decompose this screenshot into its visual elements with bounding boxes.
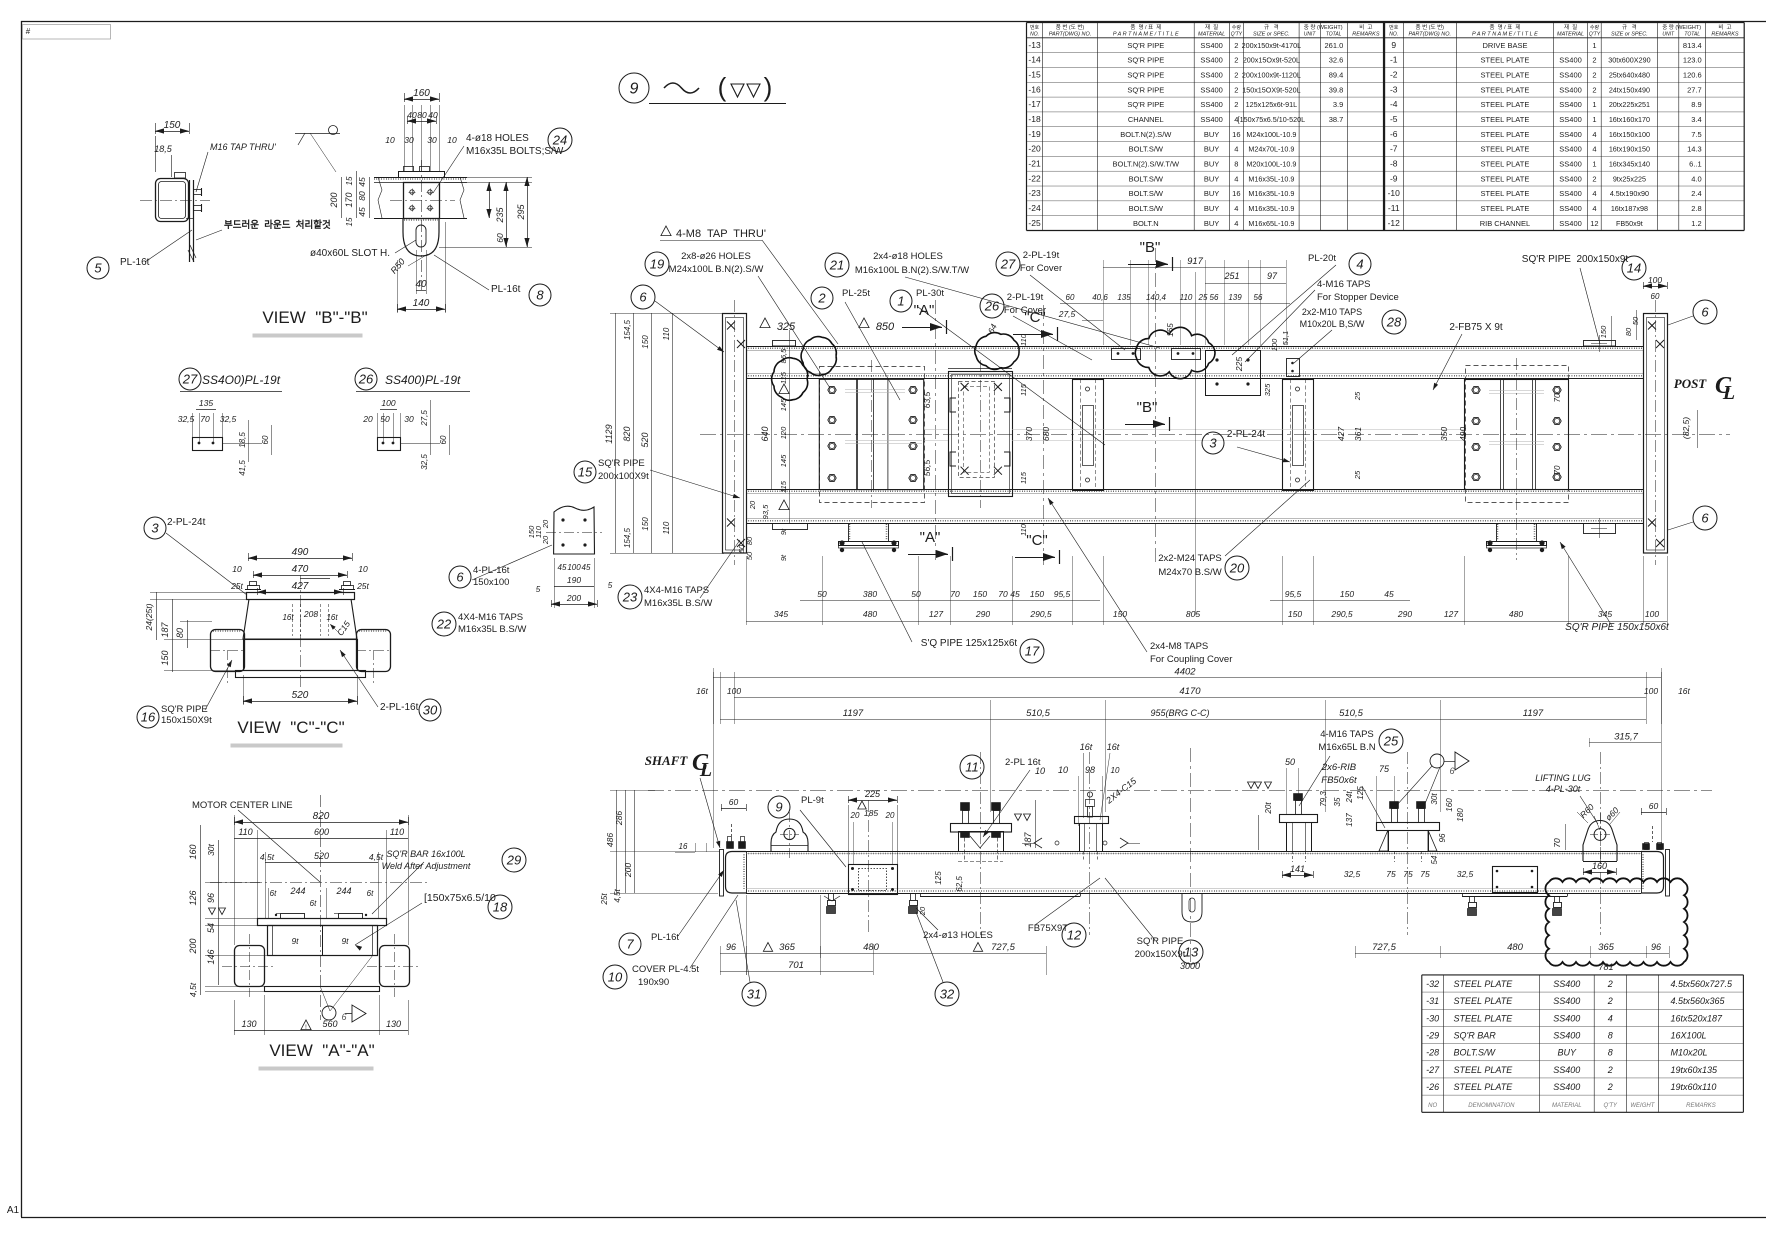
- vertical chain lines bottom assembly: [1190, 748, 1192, 962]
- svg-text:12: 12: [1590, 219, 1598, 228]
- svg-text:813.4: 813.4: [1683, 41, 1702, 50]
- svg-text:19tx60x110: 19tx60x110: [1671, 1082, 1717, 1092]
- svg-text:(: (: [718, 72, 727, 102]
- svg-text:16: 16: [1232, 189, 1240, 198]
- stopper plates under top rail: [1112, 349, 1141, 360]
- svg-text:SS400: SS400: [1559, 189, 1582, 198]
- svg-text:PART(DWG) NO.: PART(DWG) NO.: [1049, 32, 1092, 38]
- svg-text:110: 110: [1019, 523, 1028, 536]
- svg-text:60: 60: [1649, 801, 1659, 811]
- svg-text:261.0: 261.0: [1325, 41, 1344, 50]
- svg-text:16tx187x98: 16tx187x98: [1611, 204, 1648, 213]
- svg-text:24(25t): 24(25t): [144, 603, 154, 631]
- top assembly frame rails: [746, 346, 1643, 348]
- svg-text:M20x100L-10.9: M20x100L-10.9: [1246, 159, 1296, 168]
- svg-text:SS400: SS400: [1559, 145, 1582, 154]
- svg-text:45: 45: [357, 207, 367, 217]
- svg-text:50: 50: [817, 589, 827, 599]
- bottom assembly bottom labels: [619, 933, 641, 955]
- svg-text:재 질: 재 질: [1564, 23, 1577, 31]
- svg-text:244: 244: [335, 886, 351, 896]
- svg-text:17: 17: [1025, 643, 1040, 658]
- svg-text:24tx150x490: 24tx150x490: [1609, 85, 1650, 94]
- svg-text:10: 10: [385, 135, 395, 145]
- svg-text:6t: 6t: [367, 889, 374, 898]
- svg-text:150: 150: [973, 589, 987, 599]
- svg-text:(82,5): (82,5): [1681, 417, 1691, 439]
- svg-text:M24x70L-10.9: M24x70L-10.9: [1248, 145, 1294, 154]
- svg-text:510,5: 510,5: [1339, 708, 1363, 719]
- svg-text:TOTAL: TOTAL: [1684, 32, 1700, 38]
- section lines A B C: [935, 300, 937, 560]
- svg-text:REMARKS: REMARKS: [1352, 32, 1380, 38]
- svg-text:95,5: 95,5: [1285, 589, 1302, 599]
- svg-text:427: 427: [292, 581, 309, 592]
- svg-text:M10x20L: M10x20L: [1671, 1048, 1708, 1058]
- svg-text:M16x35L-10.9: M16x35L-10.9: [1248, 189, 1294, 198]
- svg-text:번호: 번호: [1030, 24, 1040, 31]
- svg-text:SS400: SS400: [1559, 56, 1582, 65]
- svg-text:127: 127: [1444, 609, 1458, 619]
- svg-text:208: 208: [303, 609, 318, 619]
- svg-text:955(BRG C-C): 955(BRG C-C): [1150, 708, 1209, 718]
- svg-text:70: 70: [1553, 465, 1562, 474]
- svg-text:139: 139: [1228, 293, 1242, 302]
- svg-text:20: 20: [885, 811, 895, 820]
- svg-text:125: 125: [934, 871, 943, 885]
- svg-text:UNIT: UNIT: [1662, 32, 1675, 38]
- svg-text:160: 160: [1592, 861, 1607, 871]
- svg-text:100: 100: [567, 563, 581, 572]
- svg-text:24t: 24t: [1345, 791, 1354, 804]
- svg-text:비 고: 비 고: [1359, 23, 1372, 31]
- svg-text:70: 70: [1553, 393, 1562, 402]
- svg-text:80: 80: [175, 628, 185, 638]
- lifting lug left PL-9t: [771, 819, 808, 852]
- svg-text:9tx25x225: 9tx25x225: [1613, 174, 1646, 183]
- svg-text:480: 480: [1509, 609, 1523, 619]
- svg-text:BOLT.S/W: BOLT.S/W: [1454, 1048, 1497, 1058]
- svg-text:-3: -3: [1390, 84, 1398, 94]
- svg-text:115: 115: [1019, 471, 1028, 484]
- svg-text:SQ'R BAR 16x100L: SQ'R BAR 16x100L: [386, 849, 465, 859]
- svg-text:9: 9: [775, 799, 782, 814]
- svg-text:15: 15: [345, 176, 354, 185]
- svg-text:WEIGHT: WEIGHT: [1630, 1103, 1655, 1109]
- center bearing housing: [949, 372, 1013, 497]
- svg-text:20: 20: [1229, 560, 1245, 575]
- svg-text:-25: -25: [1028, 218, 1041, 228]
- svg-text:SQ'R PIPE: SQ'R PIPE: [1137, 936, 1184, 947]
- svg-text:4: 4: [1592, 130, 1596, 139]
- svg-text:9t: 9t: [779, 528, 788, 535]
- svg-text:680: 680: [1041, 427, 1051, 441]
- svg-text:22: 22: [436, 616, 452, 631]
- svg-text:140,4: 140,4: [1146, 293, 1167, 302]
- svg-text:M24x100L B.N(2).S/W: M24x100L B.N(2).S/W: [669, 264, 764, 275]
- svg-text:251: 251: [1223, 271, 1239, 281]
- svg-text:PL-25t: PL-25t: [842, 288, 870, 299]
- svg-text:135: 135: [1117, 293, 1131, 302]
- svg-text:146: 146: [206, 949, 216, 964]
- svg-text:VIEW "A"-"A": VIEW "A"-"A": [269, 1041, 374, 1060]
- svg-text:-32: -32: [1426, 979, 1439, 989]
- svg-text:40: 40: [415, 279, 427, 290]
- svg-text:"C": "C": [1024, 309, 1045, 326]
- svg-text:18: 18: [493, 899, 508, 914]
- svg-text:480: 480: [1507, 942, 1524, 953]
- svg-text:25t: 25t: [356, 581, 369, 591]
- svg-text:45: 45: [582, 563, 591, 572]
- svg-text:-26: -26: [1426, 1082, 1439, 1092]
- svg-text:SQ'R PIPE: SQ'R PIPE: [1127, 71, 1164, 80]
- svg-text:2: 2: [1592, 71, 1596, 80]
- svg-text:16tx520x187: 16tx520x187: [1671, 1013, 1724, 1023]
- svg-text:150: 150: [1030, 589, 1044, 599]
- svg-text:PL-16t: PL-16t: [491, 284, 521, 295]
- svg-text:SS400: SS400: [1200, 85, 1223, 94]
- svg-text:16tx150x100: 16tx150x100: [1609, 130, 1650, 139]
- weld notes 325 850: [760, 318, 770, 328]
- svg-text:160: 160: [1445, 798, 1454, 812]
- svg-text:75: 75: [1379, 764, 1390, 774]
- svg-text:110: 110: [662, 521, 671, 534]
- svg-text:187: 187: [1023, 832, 1033, 848]
- svg-text:2x4-M8 TAPS: 2x4-M8 TAPS: [1150, 641, 1208, 652]
- svg-text:STEEL PLATE: STEEL PLATE: [1481, 174, 1530, 183]
- svg-text:18,5: 18,5: [238, 432, 247, 448]
- svg-text:380: 380: [863, 589, 877, 599]
- svg-text:10: 10: [447, 135, 457, 145]
- svg-text:BOLT.N(2).S/W.T/W: BOLT.N(2).S/W.T/W: [1113, 159, 1180, 168]
- svg-text:P A R T N A M E / T I T L E: P A R T N A M E / T I T L E: [1113, 32, 1179, 38]
- svg-text:M16x35L B.S/W: M16x35L B.S/W: [458, 624, 526, 635]
- svg-text:STEEL PLATE: STEEL PLATE: [1454, 996, 1514, 1006]
- svg-text:SS400: SS400: [1559, 130, 1582, 139]
- svg-text:SS400: SS400: [1559, 100, 1582, 109]
- svg-text:4-M16 TAPS: 4-M16 TAPS: [1320, 729, 1374, 740]
- svg-text:51,1: 51,1: [1281, 331, 1290, 346]
- svg-text:70: 70: [998, 589, 1008, 599]
- svg-text:2x4-ø18 HOLES: 2x4-ø18 HOLES: [873, 251, 943, 262]
- center line POST: [700, 434, 1730, 436]
- svg-text:141: 141: [1290, 864, 1305, 874]
- svg-text:10: 10: [1111, 766, 1120, 775]
- svg-text:9t: 9t: [341, 936, 349, 946]
- svg-text:2.8: 2.8: [1691, 204, 1701, 213]
- svg-text:BUY: BUY: [1204, 145, 1219, 154]
- svg-text:"B": "B": [1137, 399, 1158, 416]
- svg-text:10: 10: [1035, 766, 1045, 776]
- svg-text:PART(DWG) NO.: PART(DWG) NO.: [1408, 32, 1451, 38]
- svg-text:품 번 (도 번): 품 번 (도 번): [1416, 23, 1445, 31]
- svg-text:45: 45: [357, 177, 367, 187]
- svg-text:2: 2: [1234, 56, 1238, 65]
- svg-text:SHAFT: SHAFT: [645, 753, 689, 768]
- motor mount left bolt group: [820, 367, 925, 503]
- svg-text:M16 TAP THRU': M16 TAP THRU': [210, 142, 276, 152]
- left bolts on beam top: [728, 837, 732, 845]
- svg-text:29: 29: [506, 852, 521, 867]
- svg-text:-29: -29: [1426, 1030, 1439, 1040]
- svg-text:4-M16 TAPS: 4-M16 TAPS: [1317, 279, 1371, 290]
- svg-text:-24: -24: [1028, 203, 1041, 213]
- svg-text:70: 70: [1552, 838, 1562, 848]
- svg-text:PL-30t: PL-30t: [916, 288, 944, 299]
- svg-text:-11: -11: [1388, 203, 1400, 213]
- svg-text:32,5: 32,5: [1344, 869, 1361, 879]
- svg-text:2: 2: [1592, 56, 1596, 65]
- svg-text:96: 96: [1651, 942, 1661, 952]
- svg-text:200x100x9t-1120L: 200x100x9t-1120L: [1242, 71, 1301, 80]
- svg-text:32,5: 32,5: [178, 414, 195, 424]
- svg-text:325: 325: [777, 321, 796, 333]
- svg-text:STEEL PLATE: STEEL PLATE: [1481, 189, 1530, 198]
- balloon 15 SQR PIPE 200x100X9t: [574, 461, 596, 483]
- svg-text:4,5t: 4,5t: [188, 982, 198, 997]
- beam inner lines and hidden bolt dashes: [746, 853, 1641, 855]
- svg-text:16t: 16t: [1080, 742, 1093, 752]
- svg-text:96: 96: [1438, 833, 1447, 842]
- misc weld marks bottom assembly: [824, 896, 840, 901]
- svg-text:3.9: 3.9: [1333, 100, 1343, 109]
- svg-text:150: 150: [641, 517, 650, 531]
- svg-text:14: 14: [1627, 260, 1641, 275]
- svg-text:SQ'R PIPE: SQ'R PIPE: [1127, 41, 1164, 50]
- svg-text:SQ'R PIPE: SQ'R PIPE: [1127, 100, 1164, 109]
- svg-text:STEEL PLATE: STEEL PLATE: [1481, 145, 1530, 154]
- bottom assembly beam: [746, 851, 1641, 853]
- svg-text:40: 40: [428, 110, 438, 120]
- svg-text:79,3: 79,3: [1319, 791, 1328, 807]
- svg-text:41,5: 41,5: [238, 460, 247, 476]
- svg-text:PL-9t: PL-9t: [801, 795, 824, 806]
- svg-text:1129: 1129: [604, 424, 614, 443]
- svg-text:200x150X9t: 200x150X9t: [1135, 949, 1186, 960]
- svg-text:STEEL PLATE: STEEL PLATE: [1481, 85, 1530, 94]
- svg-text:190x90: 190x90: [638, 977, 669, 988]
- svg-text:120.6: 120.6: [1683, 71, 1702, 80]
- svg-text:M16x35L-10.9: M16x35L-10.9: [1248, 174, 1294, 183]
- svg-text:Q'TY: Q'TY: [1589, 32, 1601, 38]
- svg-text:1197: 1197: [843, 708, 864, 719]
- svg-text:24: 24: [552, 132, 567, 147]
- bearing pedestal right of center: [1075, 817, 1109, 824]
- svg-text:6: 6: [1701, 304, 1709, 319]
- bottom assembly bottom dims: [720, 953, 1046, 955]
- svg-text:25t: 25t: [600, 893, 609, 906]
- svg-text:-15: -15: [1028, 70, 1041, 80]
- svg-text:100: 100: [1644, 686, 1658, 696]
- svg-text:SS400: SS400: [1200, 115, 1223, 124]
- sheet border: [21, 21, 1766, 23]
- svg-text:16t: 16t: [282, 613, 294, 622]
- rib pedestal (2x6-RIB): [1377, 823, 1440, 831]
- svg-text:6: 6: [341, 1012, 346, 1022]
- svg-text:부드러운 라운드 처리할것: 부드러운 라운드 처리할것: [224, 219, 331, 231]
- svg-text:품 명 / 표 제: 품 명 / 표 제: [1130, 23, 1161, 31]
- svg-text:2: 2: [1607, 1065, 1613, 1075]
- svg-text:4: 4: [1592, 204, 1596, 213]
- right end bolts: [1652, 826, 1654, 842]
- svg-text:비 고: 비 고: [1718, 23, 1731, 31]
- svg-text:225: 225: [864, 789, 881, 799]
- svg-text:For Coupling Cover: For Coupling Cover: [1150, 654, 1232, 665]
- svg-text:NO.: NO.: [1389, 32, 1398, 38]
- svg-text:BUY: BUY: [1204, 219, 1219, 228]
- svg-text:3: 3: [151, 520, 159, 535]
- svg-text:RIB CHANNEL: RIB CHANNEL: [1480, 219, 1530, 228]
- svg-text:4-M8 TAP THRU': 4-M8 TAP THRU': [676, 228, 766, 240]
- svg-text:56: 56: [1210, 293, 1219, 302]
- svg-text:M16x35L BOLTS;S/W: M16x35L BOLTS;S/W: [466, 146, 564, 157]
- svg-text:2-PL-16t: 2-PL-16t: [380, 702, 419, 713]
- svg-text:MATERIAL: MATERIAL: [1198, 32, 1225, 38]
- svg-text:REMARKS: REMARKS: [1711, 32, 1739, 38]
- svg-text:1: 1: [1592, 159, 1596, 168]
- svg-text:-27: -27: [1426, 1065, 1440, 1075]
- svg-text:110: 110: [238, 827, 252, 837]
- svg-text:345: 345: [774, 609, 788, 619]
- svg-text:8.9: 8.9: [1691, 100, 1701, 109]
- svg-text:-21: -21: [1028, 158, 1041, 168]
- svg-text:20: 20: [850, 811, 860, 820]
- svg-text:5: 5: [536, 585, 541, 594]
- svg-text:727,5: 727,5: [991, 942, 1015, 953]
- svg-text:중 량 (WEIGHT): 중 량 (WEIGHT): [1304, 24, 1343, 31]
- svg-text:10: 10: [1058, 765, 1068, 775]
- svg-text:4X4-M16 TAPS: 4X4-M16 TAPS: [458, 612, 523, 623]
- svg-text:SS400: SS400: [1200, 71, 1223, 80]
- svg-text:SS400: SS400: [1559, 71, 1582, 80]
- pedestal 11 (2-PL 16t): [951, 824, 1012, 833]
- svg-text:-7: -7: [1390, 144, 1398, 154]
- revision cloud bottom right: [1545, 878, 1687, 965]
- svg-text:PL-16t: PL-16t: [120, 257, 150, 268]
- svg-text:[150x75x6.5/10: [150x75x6.5/10: [424, 892, 496, 904]
- svg-text:M24x100L-10.9: M24x100L-10.9: [1246, 130, 1296, 139]
- svg-text:1: 1: [897, 293, 904, 308]
- svg-text:-20: -20: [1028, 144, 1041, 154]
- svg-text:40: 40: [407, 110, 417, 120]
- svg-text:25: 25: [1353, 470, 1362, 480]
- svg-text:25: 25: [1198, 293, 1208, 302]
- svg-text:ø40x60L SLOT H.: ø40x60L SLOT H.: [310, 248, 390, 259]
- svg-text:SS400: SS400: [1553, 1082, 1580, 1092]
- supports under bottom rail: [848, 523, 850, 541]
- svg-text:21: 21: [829, 257, 844, 272]
- top dim block above stopper: [1103, 267, 1286, 269]
- svg-text:150: 150: [1113, 609, 1127, 619]
- svg-text:50: 50: [1285, 757, 1295, 767]
- svg-text:6: 6: [456, 569, 464, 584]
- svg-text:54: 54: [206, 923, 216, 933]
- svg-text:SS400: SS400: [1553, 1065, 1580, 1075]
- svg-text:BOLT.S/W: BOLT.S/W: [1129, 189, 1164, 198]
- svg-text:54: 54: [1430, 855, 1439, 864]
- svg-text:200x150x9t-4170L: 200x150x9t-4170L: [1242, 41, 1302, 50]
- svg-text:-28: -28: [1426, 1048, 1439, 1058]
- svg-text:110: 110: [390, 827, 404, 837]
- svg-text:30: 30: [423, 702, 438, 717]
- svg-text:145: 145: [779, 398, 788, 411]
- svg-text:123.0: 123.0: [1683, 56, 1702, 65]
- svg-text:재 질: 재 질: [1205, 23, 1218, 31]
- svg-text:20tx225x251: 20tx225x251: [1609, 100, 1650, 109]
- svg-text:SQ'R PIPE 200x150x9t: SQ'R PIPE 200x150x9t: [1522, 254, 1629, 265]
- svg-text:27.7: 27.7: [1687, 85, 1702, 94]
- svg-text:2: 2: [1592, 85, 1596, 94]
- svg-text:-17: -17: [1028, 99, 1041, 109]
- detail 4-PL-16t 150x100: [554, 506, 595, 554]
- svg-text:39.8: 39.8: [1329, 85, 1344, 94]
- svg-text:30: 30: [427, 135, 437, 145]
- svg-text:200x100X9t: 200x100X9t: [598, 471, 649, 482]
- svg-text:2: 2: [1234, 41, 1238, 50]
- svg-text:727,5: 727,5: [1372, 942, 1396, 953]
- svg-text:M16x65L B.N: M16x65L B.N: [1318, 742, 1375, 753]
- svg-text:SS400: SS400: [1559, 174, 1582, 183]
- svg-text:40,6: 40,6: [1092, 293, 1108, 302]
- svg-text:SS400: SS400: [1553, 996, 1580, 1006]
- svg-text:60: 60: [495, 233, 505, 243]
- svg-text:-2: -2: [1390, 70, 1398, 80]
- svg-text:50: 50: [911, 589, 921, 599]
- svg-text:-19: -19: [1028, 129, 1041, 139]
- svg-text:781: 781: [1598, 962, 1613, 972]
- svg-text:100: 100: [1270, 338, 1279, 351]
- svg-text:2: 2: [1607, 979, 1613, 989]
- svg-text:89.4: 89.4: [1329, 71, 1344, 80]
- svg-text:REMARKS: REMARKS: [1686, 1103, 1716, 1109]
- svg-text:20: 20: [362, 414, 373, 424]
- svg-text:S'Q PIPE 125x125x6t: S'Q PIPE 125x125x6t: [921, 638, 1018, 649]
- svg-text:#: #: [26, 27, 31, 36]
- svg-text:4: 4: [1234, 174, 1238, 183]
- svg-text:38.7: 38.7: [1329, 115, 1344, 124]
- svg-text:185: 185: [864, 808, 878, 818]
- svg-text:SS400: SS400: [1553, 1013, 1580, 1023]
- svg-text:2x2-M24 TAPS: 2x2-M24 TAPS: [1158, 553, 1222, 564]
- svg-text:170: 170: [344, 192, 354, 207]
- cover plate step under beam: [920, 896, 1080, 898]
- svg-text:160: 160: [413, 88, 430, 99]
- svg-text:45: 45: [1010, 589, 1020, 599]
- svg-text:70: 70: [950, 589, 960, 599]
- svg-text:125x125x6t-91L: 125x125x6t-91L: [1246, 100, 1298, 109]
- svg-text:126: 126: [188, 890, 198, 905]
- svg-text:SS400: SS400: [1559, 85, 1582, 94]
- svg-text:Weld After Adjustment: Weld After Adjustment: [382, 861, 471, 871]
- svg-text:32.6: 32.6: [1329, 56, 1344, 65]
- svg-text:9: 9: [630, 80, 639, 97]
- svg-text:SS400: SS400: [1559, 219, 1582, 228]
- svg-text:480: 480: [863, 609, 877, 619]
- svg-text:115: 115: [779, 371, 788, 384]
- svg-text:120: 120: [779, 426, 788, 439]
- svg-text:2x8-ø26 HOLES: 2x8-ø26 HOLES: [681, 251, 751, 262]
- svg-text:560: 560: [322, 1019, 337, 1029]
- svg-text:BUY: BUY: [1204, 189, 1219, 198]
- svg-text:BUY: BUY: [1204, 130, 1219, 139]
- title box top-left: [23, 25, 111, 40]
- svg-text:150: 150: [1599, 325, 1608, 338]
- svg-text:2: 2: [1607, 996, 1613, 1006]
- svg-text:75: 75: [1403, 869, 1413, 879]
- svg-text:110: 110: [1019, 333, 1028, 346]
- svg-text:145: 145: [779, 454, 788, 467]
- svg-text:SQ'R PIPE: SQ'R PIPE: [161, 704, 208, 715]
